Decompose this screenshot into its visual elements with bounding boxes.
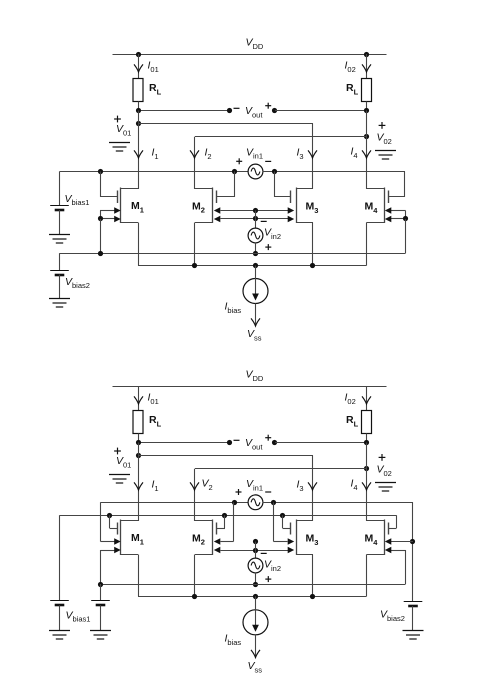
resistor R_L right (top) <box>362 79 372 102</box>
wire V_out right segment (bottom) <box>275 442 367 444</box>
source V_in2 (bottom) <box>248 558 263 573</box>
bulk arrow M1 upper (top) <box>100 210 115 212</box>
junction dot M1 bulk on bias rail (top) <box>98 251 103 256</box>
wire M4 gate drop (bottom) <box>396 515 398 528</box>
junction dot node V_01 lower (bottom) <box>136 453 141 458</box>
junction dot M4 bulk (top) <box>403 216 408 221</box>
wire common source rail (bottom) <box>138 596 367 598</box>
transistor M3 (bottom) source lead <box>296 554 313 556</box>
transistor M1 (bottom) drain lead <box>121 520 138 522</box>
transistor M3 (bottom) gate lead <box>283 528 292 530</box>
battery V_bias1 (top) <box>50 206 69 211</box>
wire M3 drain vertical (top) <box>312 124 314 190</box>
wire R_L right to node V_02 (top) <box>366 102 368 111</box>
junction dot M2 gate (bottom) <box>222 513 227 518</box>
wire M4 source vertical (top) <box>366 223 368 266</box>
source V_in1 (bottom) <box>248 495 263 510</box>
transistor M1 (top) source lead <box>121 222 138 224</box>
bulk arrow M4 upper (bottom) <box>391 541 413 543</box>
junction dot tail on source rail (bottom) <box>253 594 258 599</box>
transistor M2 (bottom) source lead <box>195 554 212 556</box>
transistor M1 (top) channel <box>120 188 122 224</box>
wire M1 drain vertical (top) <box>138 111 140 190</box>
junction dot M2 source (top) <box>192 263 197 268</box>
battery V_bias1 (bottom) <box>50 601 69 606</box>
source V_in1 (top) <box>248 164 263 179</box>
wire M4 gate drop (top) <box>404 172 406 198</box>
ground symbol at V_01 (bottom) <box>109 475 130 484</box>
wire R_L right to node V_02 (bottom) <box>366 434 368 443</box>
ground symbol at V_02 (top) <box>375 151 396 160</box>
junction dot M1 gate tap (top) <box>98 169 103 174</box>
wire tail stem into current source (bottom) <box>255 596 257 626</box>
transistor M1 (top) gate bar <box>117 191 119 204</box>
wire M1 drain vertical (bottom) <box>138 443 140 522</box>
transistor M4 (bottom) gate lead <box>389 528 397 530</box>
transistor M3 (top) source lead <box>296 222 313 224</box>
wire M2 drain vertical (top) <box>194 137 196 189</box>
transistor M2 (bottom) gate lead <box>217 528 225 530</box>
wire V_out right segment (top) <box>275 110 367 112</box>
bulk arrow M1 lower (bottom) <box>101 550 115 552</box>
plus sign of V_in1 (top) <box>236 158 242 164</box>
bulk arrow M2 lower with M3 lower (bottom) <box>221 550 291 552</box>
wire M2 gate drop (top) <box>234 172 236 198</box>
wire V_bias1 to gate rail (top) <box>59 172 61 206</box>
wire M3 source vertical (top) <box>312 223 314 266</box>
plus sign of V_02 (bottom) <box>379 454 386 461</box>
bulk arrow M2 upper with M3 upper (top) <box>221 210 291 212</box>
current arrow I_4 (bottom) <box>362 482 371 490</box>
ground of V_bias2 (top) <box>49 299 70 308</box>
plus sign of V_in1 (bottom) <box>236 489 242 495</box>
transistor M2 (top) gate bar <box>216 191 218 204</box>
transistor M1 (bottom) channel <box>120 520 122 556</box>
terminal dot V_out minus (bottom) <box>227 440 232 445</box>
wire V_DD to R_L left (bottom) <box>138 386 140 411</box>
wire M3 drain vertical (bottom) <box>312 456 314 522</box>
wire M1 lower bulk down to bias rail (bottom) <box>100 550 102 584</box>
transistor M3 (bottom) gate bar <box>290 523 292 535</box>
arrowhead inside I_bias (top) <box>252 294 259 301</box>
junction dot V_in1 plus / M2 bulk tap (bottom) <box>232 500 237 505</box>
ground symbol at V_02 (bottom) <box>375 483 396 492</box>
minus sign of V_out (bottom) <box>234 439 240 441</box>
junction dot V_in1 minus / M3 bulk tap (bottom) <box>271 500 276 505</box>
junction dot M1 gate (bottom) <box>107 513 112 518</box>
wire R_L left to node V_01 (top) <box>138 102 140 111</box>
junction on V_DD rail at left resistor (top) <box>136 52 141 57</box>
transistor M3 (bottom) drain lead <box>296 520 313 522</box>
plus sign of V_02 (top) <box>379 122 386 129</box>
arrowhead inside I_bias (bottom) <box>252 625 259 632</box>
wire V_in1 plus line to M1/M2 bulk (bottom) <box>101 502 249 504</box>
current arrow I_1 (bottom) <box>134 482 143 490</box>
wire M3 gate drop (top) <box>274 172 276 198</box>
terminal dot V_out plus (bottom) <box>272 440 277 445</box>
battery left reference (bottom) <box>91 601 110 606</box>
bulk arrow M2 lower with M3 lower (top) <box>221 218 291 220</box>
transistor M2 (top) channel <box>212 188 214 224</box>
wire cross-couple V_02 to M2 drain (top) <box>195 136 367 138</box>
source V_in2 (top) <box>248 228 263 243</box>
wire cross-couple V_01 to M3 drain (top) <box>138 123 313 125</box>
transistor M4 (bottom) source lead <box>367 554 385 556</box>
wire V_DD supply rail (top) <box>113 54 387 56</box>
wire gate rail left segment V_bias1 to V_in1+ (top) <box>60 171 249 173</box>
junction dot node V_01 upper (top) <box>136 108 141 113</box>
transistor M2 (bottom) channel <box>212 520 214 556</box>
wire M3 gate drop (bottom) <box>282 515 284 528</box>
terminal dot above V_in2 (bottom) <box>253 539 258 544</box>
battery V_bias2 (top) <box>50 271 69 276</box>
transistor M2 (top) drain lead <box>195 188 212 190</box>
wire R_L left to node V_01 (bottom) <box>138 434 140 443</box>
wire V_bias1 to ground (top) <box>59 210 61 235</box>
bulk arrow M1 upper (bottom) <box>101 541 115 543</box>
transistor M2 (top) source lead <box>195 222 212 224</box>
transistor M4 (top) channel <box>384 188 386 224</box>
wire M1 upper bulk to V_in1 plus (bottom) <box>100 502 102 541</box>
junction dot V_in2 on bias rail (bottom) <box>253 582 258 587</box>
wire M2 source vertical (bottom) <box>194 555 196 597</box>
junction dot M3 source (bottom) <box>310 594 315 599</box>
wire common source rail (top) <box>138 265 367 267</box>
junction dot node V_02 upper (bottom) <box>364 440 369 445</box>
wire M1 gate drop (bottom) <box>109 515 111 528</box>
wire M1 source vertical (top) <box>138 223 140 266</box>
junction on V_DD rail at right resistor (top) <box>364 52 369 57</box>
transistor M3 (bottom) channel <box>296 520 298 556</box>
arrow to V_ss (bottom) <box>251 650 260 658</box>
wire M1 bulk bracket (top) <box>100 211 102 220</box>
current arrow I_02 (bottom) <box>362 396 371 404</box>
wire V_in2 bottom stem (top) <box>255 243 257 254</box>
wire V_bias1 to ground (bottom) <box>59 605 61 630</box>
resistor R_L left (bottom) <box>133 411 143 434</box>
transistor M4 (top) source lead <box>367 222 385 224</box>
wire bulk bias rail (top) <box>60 253 406 255</box>
minus sign of V_in1 (top) <box>265 160 271 162</box>
transistor M4 (top) gate bar <box>388 191 390 204</box>
wire common gate line to V_bias1 (bottom) <box>60 515 397 517</box>
junction dot node V_01 upper (bottom) <box>136 440 141 445</box>
junction dot V_in2 top on lower bulk line (bottom) <box>253 548 258 553</box>
wire gate line down to V_bias1 (bottom) <box>59 515 61 601</box>
wire V_bias2 to bias rail (top) <box>59 253 61 270</box>
current arrow I_3 (bottom) <box>308 482 317 490</box>
transistor M4 (top) drain lead <box>367 188 385 190</box>
wire M4 upper bulk / V_bias2 vertical (bottom) <box>412 502 414 601</box>
ground of V_bias1 (bottom) <box>49 631 70 640</box>
transistor M1 (top) gate lead <box>100 196 117 198</box>
wire M1 bulk to bias rail (top) <box>100 219 102 253</box>
plus sign of V_out (top) <box>265 103 271 109</box>
transistor M3 (top) gate lead <box>275 196 292 198</box>
wire M2 source vertical (top) <box>194 223 196 266</box>
current arrow I_3 (top) <box>308 150 317 158</box>
wire V_out left segment (top) <box>138 110 230 112</box>
current arrow I_1 (top) <box>134 150 143 158</box>
wire V_DD to R_L right (top) <box>366 54 368 79</box>
transistor M2 (bottom) drain lead <box>195 520 212 522</box>
junction dot node V_01 lower (top) <box>136 121 141 126</box>
bulk arrow M3 upper (bottom) <box>274 541 288 543</box>
transistor M1 (bottom) gate lead <box>110 528 118 530</box>
wire bulk bias rail (bottom) <box>101 584 406 586</box>
minus sign of V_in2 (bottom) <box>261 552 267 554</box>
terminal dot V_out plus (top) <box>272 108 277 113</box>
bulk arrow M1 lower (top) <box>100 218 115 220</box>
wire bias rail down to left reference battery (bottom) <box>100 584 102 601</box>
wire I_bias to V_ss (top) <box>255 304 257 327</box>
wire V_bias2 to ground (top) <box>59 275 61 299</box>
plus sign of V_in2 (bottom) <box>265 576 271 582</box>
wire M4 source vertical (bottom) <box>366 555 368 597</box>
wire left reference battery to ground (bottom) <box>100 605 102 630</box>
wire V_out left segment (bottom) <box>138 442 230 444</box>
resistor R_L right (bottom) <box>362 411 372 434</box>
wire V_in2 bottom stem (bottom) <box>255 573 257 585</box>
wire cross-couple V_02 to M2 drain (bottom) <box>195 468 367 470</box>
minus sign of V_out (top) <box>234 107 240 109</box>
junction dot M1 bulk (top) <box>98 216 103 221</box>
resistor R_L left (top) <box>133 79 143 102</box>
wire V_DD to R_L right (bottom) <box>366 386 368 411</box>
junction dot M4 upper bulk (bottom) <box>410 539 415 544</box>
transistor M4 (bottom) drain lead <box>367 520 385 522</box>
transistor M3 (top) channel <box>296 188 298 224</box>
wire M4 bulk bracket (top) <box>405 211 407 220</box>
wire M4 drain vertical (top) <box>366 111 368 190</box>
wire M4 drain vertical (bottom) <box>366 443 368 522</box>
junction dot V_in2 top upper (top) <box>253 208 258 213</box>
junction dot node V_02 lower (bottom) <box>364 466 369 471</box>
wire M3 upper bulk to V_in1 minus (bottom) <box>273 502 275 541</box>
current arrow I_2 (top) <box>190 150 199 158</box>
transistor M1 (bottom) gate bar <box>117 523 119 535</box>
terminal dot V_out minus (top) <box>227 108 232 113</box>
plus sign of V_01 (top) <box>114 116 121 123</box>
wire V_in2 to bulk arrows (top) <box>255 211 257 229</box>
bulk arrow M4 lower (top) <box>391 218 406 220</box>
current arrow I_01 (top) <box>134 64 143 72</box>
transistor M2 (bottom) gate bar <box>216 523 218 535</box>
transistor M3 (top) gate bar <box>290 191 292 204</box>
bulk arrow M4 upper (top) <box>391 210 406 212</box>
junction dot left battery on bias rail (bottom) <box>98 582 103 587</box>
plus sign of V_01 (bottom) <box>114 448 121 455</box>
wire cross-couple V_01 to M3 drain (bottom) <box>138 455 313 457</box>
bulk arrow M2 upper (bottom) <box>221 541 234 543</box>
wire M4 lower bulk down to bias rail (bottom) <box>405 550 407 584</box>
wire V_in1 minus line to M3/M4 bulk (bottom) <box>263 502 414 504</box>
junction dot M2 gate tap / V_in1 plus terminal (top) <box>232 169 237 174</box>
transistor M4 (bottom) gate bar <box>388 523 390 535</box>
minus sign of V_in2 (top) <box>261 220 267 222</box>
transistor M3 (top) drain lead <box>296 188 313 190</box>
wire V_bias2 to ground (bottom) <box>412 606 414 631</box>
transistor M1 (bottom) source lead <box>121 554 138 556</box>
current arrow I_4 (top) <box>362 150 371 158</box>
junction dot node V_02 upper (top) <box>364 108 369 113</box>
wire M2 gate drop (bottom) <box>224 515 226 528</box>
transistor M4 (bottom) channel <box>384 520 386 556</box>
minus sign of V_in1 (bottom) <box>265 491 271 493</box>
junction dot M3 gate (bottom) <box>280 513 285 518</box>
current arrow I_01 (bottom) <box>134 396 143 404</box>
wire M1 source vertical (bottom) <box>138 555 140 597</box>
plus sign of V_out (bottom) <box>265 435 271 441</box>
junction dot M3 source (top) <box>310 263 315 268</box>
junction dot V_in2 on bias rail (top) <box>253 251 258 256</box>
transistor M2 (top) gate lead <box>217 196 235 198</box>
current source I_bias (bottom) <box>243 610 268 635</box>
junction dot node V_02 lower (top) <box>364 134 369 139</box>
wire M2 upper bulk to V_in1 plus (bottom) <box>233 502 235 541</box>
junction dot M2 source (bottom) <box>192 594 197 599</box>
wire V_DD to R_L left (top) <box>138 54 140 79</box>
ground of V_bias1 (top) <box>49 235 70 244</box>
current source I_bias (top) <box>243 279 268 304</box>
wire V_DD supply rail (bottom) <box>113 386 387 388</box>
wire M2 drain vertical (bottom) <box>194 469 196 521</box>
transistor M4 (top) gate lead <box>389 196 405 198</box>
current arrow I_02 (top) <box>362 64 371 72</box>
wire gate rail right segment V_in1- to M4 gate (top) <box>263 171 406 173</box>
wire V_in2 top stub (bottom) <box>255 542 257 559</box>
wire M3 source vertical (bottom) <box>312 555 314 597</box>
junction dot tail on source rail (top) <box>253 263 258 268</box>
ground of V_bias2 (bottom) <box>403 631 424 640</box>
battery V_bias2 (bottom) <box>404 602 423 607</box>
wire M4 bulk to bias rail (top) <box>405 219 407 253</box>
wire M1 gate drop (top) <box>100 172 102 198</box>
junction dot V_in2 top lower (top) <box>253 216 258 221</box>
ground of left reference battery (bottom) <box>90 631 111 640</box>
current arrow I_2 (bottom) <box>190 482 199 490</box>
transistor M1 (top) drain lead <box>121 188 138 190</box>
wire I_bias to V_ss (bottom) <box>255 635 257 658</box>
bulk arrow M4 lower (bottom) <box>391 550 406 552</box>
ground symbol at V_01 (top) <box>109 143 130 152</box>
plus sign of V_in2 (top) <box>265 244 271 250</box>
arrow to V_ss (top) <box>251 318 260 326</box>
junction dot M3 gate tap (top) <box>272 169 277 174</box>
wire tail stem into current source (top) <box>255 266 257 295</box>
